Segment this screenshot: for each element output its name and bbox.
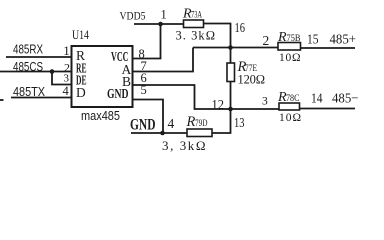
IC U14 max485 body xyxy=(72,46,133,107)
svg-text:2: 2 xyxy=(263,33,270,48)
svg-text:3, 3kΩ: 3, 3kΩ xyxy=(162,138,206,153)
svg-text:10Ω: 10Ω xyxy=(279,52,301,64)
wire VDD riser to pin 8 xyxy=(133,24,161,59)
svg-text:485RX: 485RX xyxy=(13,42,43,57)
wire CS-to-DE riser xyxy=(52,72,72,85)
svg-text:13: 13 xyxy=(234,116,245,131)
wire 485RX xyxy=(6,56,72,58)
svg-text:1: 1 xyxy=(161,8,167,22)
svg-text:3: 3 xyxy=(64,73,70,85)
svg-text:D: D xyxy=(76,85,86,100)
svg-text:15: 15 xyxy=(307,33,319,48)
svg-text:U14: U14 xyxy=(72,28,90,42)
svg-text:R: R xyxy=(186,114,196,130)
svg-text:485−: 485− xyxy=(332,92,359,107)
wire R79D to node B riser xyxy=(212,109,231,133)
wire GND xyxy=(131,132,187,134)
node A junction xyxy=(228,45,233,50)
wire R73A to node A xyxy=(204,24,231,48)
node VDD junction xyxy=(158,22,163,27)
svg-text:120Ω: 120Ω xyxy=(238,73,266,87)
svg-text:485CS: 485CS xyxy=(13,59,43,74)
svg-text:79D: 79D xyxy=(195,118,208,128)
wire 485TX xyxy=(11,97,72,99)
svg-text:GND: GND xyxy=(107,87,129,102)
svg-text:485TX: 485TX xyxy=(13,84,45,99)
wire node A horizontal xyxy=(193,47,278,49)
svg-text:73A: 73A xyxy=(191,10,202,20)
resistor R77E xyxy=(227,63,235,82)
wire pin 7 riser xyxy=(133,48,194,72)
svg-text:10Ω: 10Ω xyxy=(279,112,301,124)
svg-text:3. 3kΩ: 3. 3kΩ xyxy=(176,29,216,43)
svg-text:max485: max485 xyxy=(81,108,120,123)
node B junction xyxy=(228,107,233,112)
svg-text:75B: 75B xyxy=(287,33,301,43)
svg-text:R: R xyxy=(277,30,287,45)
svg-text:GND: GND xyxy=(130,117,156,134)
svg-text:4: 4 xyxy=(168,116,175,131)
wire R77E bottom lead xyxy=(230,82,232,110)
svg-text:485+: 485+ xyxy=(330,33,357,48)
svg-text:4: 4 xyxy=(63,84,70,98)
resistor R75B xyxy=(278,43,301,51)
node CS junction xyxy=(50,69,55,74)
svg-text:3: 3 xyxy=(262,96,268,108)
svg-text:12: 12 xyxy=(212,98,225,113)
svg-text:14: 14 xyxy=(311,92,323,107)
node GND junction xyxy=(160,131,165,136)
svg-text:VDD5: VDD5 xyxy=(120,11,146,23)
svg-text:5: 5 xyxy=(141,83,147,97)
wire left edge stub xyxy=(0,99,4,101)
wire R78C to 485- xyxy=(300,108,356,110)
svg-text:77E: 77E xyxy=(245,63,257,73)
resistor R79D xyxy=(187,129,212,137)
wire VDD5 xyxy=(134,23,184,25)
wire pin 5 riser xyxy=(133,100,164,134)
wire R77E top lead xyxy=(230,48,232,64)
resistor R73A xyxy=(184,20,204,28)
wire pin 6 to node B xyxy=(133,85,280,109)
resistor R78C xyxy=(279,103,300,110)
svg-text:1: 1 xyxy=(63,43,70,58)
wire R75B to 485+ xyxy=(301,47,356,49)
wire 485CS xyxy=(0,71,72,73)
svg-text:16: 16 xyxy=(235,21,246,36)
svg-text:78C: 78C xyxy=(286,93,300,103)
